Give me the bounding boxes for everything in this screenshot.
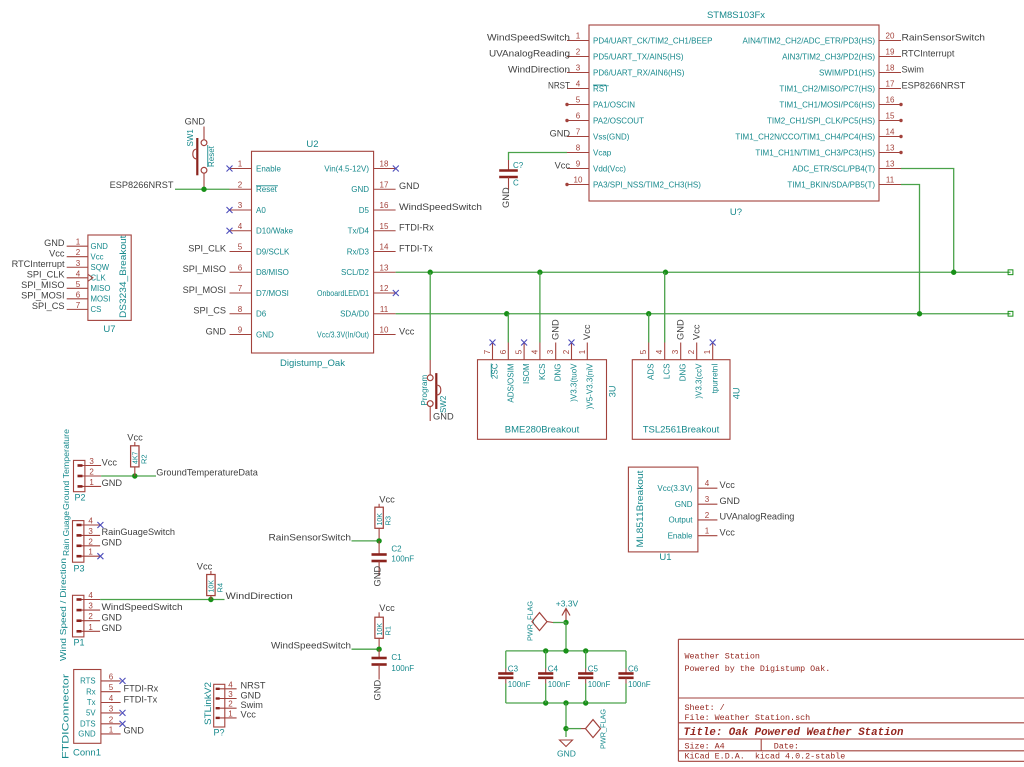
svg-text:2: 2 xyxy=(687,349,696,354)
svg-text:Vcc: Vcc xyxy=(379,603,395,613)
svg-text:Vcc: Vcc xyxy=(241,710,257,720)
svg-text:Sheet: /: Sheet: / xyxy=(685,703,725,713)
svg-text:13: 13 xyxy=(380,263,389,272)
svg-text:FTDI-Tx: FTDI-Tx xyxy=(399,243,433,253)
svg-text:4: 4 xyxy=(238,222,243,231)
svg-text:NRST: NRST xyxy=(241,681,266,691)
svg-text:SPI_MISO: SPI_MISO xyxy=(21,280,64,290)
svg-text:Enable: Enable xyxy=(668,532,693,541)
svg-text:8: 8 xyxy=(238,305,243,314)
svg-text:ADC_ETR/SCL/PB4(T): ADC_ETR/SCL/PB4(T) xyxy=(792,164,875,173)
svg-text:Rx/D3: Rx/D3 xyxy=(347,247,370,256)
svg-text:SW2: SW2 xyxy=(439,395,448,413)
svg-text:Tx/D4: Tx/D4 xyxy=(348,227,370,236)
svg-text:GND: GND xyxy=(373,566,383,587)
svg-text:6: 6 xyxy=(109,672,114,681)
svg-text:TIM2_CH1/SPI_CLK/PC5(HS): TIM2_CH1/SPI_CLK/PC5(HS) xyxy=(767,116,875,125)
svg-text:Swim: Swim xyxy=(902,64,925,74)
svg-text:UVAnalogReading: UVAnalogReading xyxy=(720,512,795,522)
svg-text:D6: D6 xyxy=(256,310,267,319)
svg-text:5: 5 xyxy=(576,96,581,105)
svg-text:Vcc: Vcc xyxy=(127,433,143,443)
svg-text:GND: GND xyxy=(102,613,123,623)
svg-text:6: 6 xyxy=(576,112,581,121)
svg-text:4U: 4U xyxy=(732,388,742,400)
svg-text:UVAnalogReading: UVAnalogReading xyxy=(489,48,570,58)
svg-text:BME280Breakout: BME280Breakout xyxy=(505,425,580,436)
svg-text:5: 5 xyxy=(515,349,524,354)
svg-text:17: 17 xyxy=(886,80,895,89)
svg-text:Ground Temperature: Ground Temperature xyxy=(61,429,71,510)
svg-text:7: 7 xyxy=(483,349,492,354)
svg-text:STM8S103Fx: STM8S103Fx xyxy=(707,10,765,21)
svg-text:9: 9 xyxy=(576,160,581,169)
svg-text:11: 11 xyxy=(886,176,895,185)
svg-text:PD4/UART_CK/TIM2_CH1/BEEP: PD4/UART_CK/TIM2_CH1/BEEP xyxy=(593,36,712,45)
svg-text:2: 2 xyxy=(109,715,114,724)
svg-text:Vcc: Vcc xyxy=(197,562,213,572)
svg-text:PA1/OSCIN: PA1/OSCIN xyxy=(593,100,635,109)
svg-text:12: 12 xyxy=(380,284,389,293)
svg-text:5: 5 xyxy=(238,243,243,252)
svg-text:LCS: LCS xyxy=(663,364,672,380)
svg-text:7: 7 xyxy=(576,128,581,137)
svg-text:RTS: RTS xyxy=(80,677,95,686)
svg-text:GND: GND xyxy=(44,238,65,248)
svg-text:7: 7 xyxy=(76,301,81,310)
svg-text:GND: GND xyxy=(241,690,262,700)
svg-text:4K7: 4K7 xyxy=(133,451,140,464)
svg-text:OnboardLED/D1: OnboardLED/D1 xyxy=(317,289,369,298)
svg-text:U2: U2 xyxy=(306,139,318,150)
svg-text:GND: GND xyxy=(557,749,576,759)
svg-text:SW1: SW1 xyxy=(186,129,195,147)
svg-text:DTS: DTS xyxy=(80,719,96,728)
svg-text:PWR_FLAG: PWR_FLAG xyxy=(599,709,608,749)
svg-text:3: 3 xyxy=(238,201,243,210)
svg-text:TIM1_CH1N/TIM1_CH3/PC3(HS): TIM1_CH1N/TIM1_CH3/PC3(HS) xyxy=(755,148,875,157)
svg-text:10: 10 xyxy=(380,326,389,335)
svg-text:100nF: 100nF xyxy=(548,680,571,689)
svg-text:4: 4 xyxy=(76,269,81,278)
svg-text:1: 1 xyxy=(705,527,710,536)
svg-text:FTDI-Rx: FTDI-Rx xyxy=(399,223,434,233)
svg-text:1: 1 xyxy=(238,160,243,169)
svg-text:P1: P1 xyxy=(74,638,85,648)
svg-text:SDA/D0: SDA/D0 xyxy=(340,310,369,319)
svg-text:100nF: 100nF xyxy=(391,664,414,673)
svg-text:P3: P3 xyxy=(74,564,85,574)
svg-text:Vcc: Vcc xyxy=(692,324,702,340)
svg-text:WindDirection: WindDirection xyxy=(508,64,570,74)
svg-text:Weather Station: Weather Station xyxy=(685,651,760,661)
svg-text:GND: GND xyxy=(102,538,123,548)
svg-text:TSL2561Breakout: TSL2561Breakout xyxy=(643,425,720,436)
svg-text:2: 2 xyxy=(88,537,93,546)
svg-text:RainGuageSwitch: RainGuageSwitch xyxy=(102,527,176,537)
svg-text:1: 1 xyxy=(703,349,712,354)
svg-text:Vcc: Vcc xyxy=(720,528,736,538)
svg-text:GND: GND xyxy=(676,319,686,340)
svg-text:10: 10 xyxy=(574,176,583,185)
svg-text:AIN3/TIM2_CH3/PD2(HS): AIN3/TIM2_CH3/PD2(HS) xyxy=(782,52,875,61)
svg-text:Vcc/3.3V(In/Out): Vcc/3.3V(In/Out) xyxy=(317,330,369,339)
svg-text:Vin(4.5-12V): Vin(4.5-12V) xyxy=(324,164,369,173)
svg-text:Vcc: Vcc xyxy=(49,249,65,259)
svg-text:GND: GND xyxy=(720,496,741,506)
svg-text:Powered by the Digistump Oak.: Powered by the Digistump Oak. xyxy=(685,664,831,674)
svg-text:3: 3 xyxy=(89,457,94,466)
svg-text:1: 1 xyxy=(88,548,93,557)
svg-text:11: 11 xyxy=(380,305,389,314)
svg-text:Reset: Reset xyxy=(256,185,278,194)
svg-text:File: Weather Station.sch: File: Weather Station.sch xyxy=(685,713,811,723)
svg-text:FTDI-Rx: FTDI-Rx xyxy=(124,684,159,694)
svg-text:2: 2 xyxy=(89,468,94,477)
svg-text:3: 3 xyxy=(546,349,555,354)
svg-text:4: 4 xyxy=(705,479,710,488)
svg-text:D10/Wake: D10/Wake xyxy=(256,227,294,236)
svg-text:5V: 5V xyxy=(86,709,96,718)
svg-text:GND: GND xyxy=(78,730,96,739)
svg-text:5: 5 xyxy=(76,280,81,289)
svg-text:Vcc: Vcc xyxy=(555,160,571,170)
svg-text:C: C xyxy=(513,179,519,188)
svg-text:RTCInterrupt: RTCInterrupt xyxy=(12,259,65,269)
svg-text:4: 4 xyxy=(88,591,93,600)
svg-text:CS: CS xyxy=(91,305,102,314)
svg-text:1: 1 xyxy=(228,709,233,718)
svg-text:SPI_CLK: SPI_CLK xyxy=(188,243,227,253)
svg-text:8: 8 xyxy=(576,144,581,153)
svg-text:ADS: ADS xyxy=(647,364,656,380)
svg-text:GND: GND xyxy=(501,187,511,208)
svg-text:)V3.3(tuoV: )V3.3(tuoV xyxy=(570,363,579,402)
svg-text:Vcc: Vcc xyxy=(582,324,592,340)
svg-text:+3.3V: +3.3V xyxy=(556,599,579,609)
svg-text:1: 1 xyxy=(576,32,581,41)
svg-text:GND: GND xyxy=(256,330,274,339)
svg-text:Wind Speed / Direction: Wind Speed / Direction xyxy=(58,558,68,661)
svg-text:C1: C1 xyxy=(391,653,402,662)
svg-text:GND: GND xyxy=(102,478,123,488)
svg-text:2: 2 xyxy=(238,180,243,189)
svg-text:18: 18 xyxy=(886,64,895,73)
svg-text:U7: U7 xyxy=(103,324,115,335)
svg-text:R4: R4 xyxy=(216,583,225,593)
svg-text:D8/MISO: D8/MISO xyxy=(256,268,289,277)
svg-text:3: 3 xyxy=(76,259,81,268)
svg-text:DNG: DNG xyxy=(554,364,563,382)
svg-text:GND: GND xyxy=(185,117,206,127)
svg-text:15: 15 xyxy=(886,112,895,121)
svg-text:19: 19 xyxy=(886,48,895,57)
svg-text:Date:: Date: xyxy=(774,741,799,751)
svg-text:C3: C3 xyxy=(508,665,519,674)
svg-text:D9/SCLK: D9/SCLK xyxy=(256,247,290,256)
svg-text:6: 6 xyxy=(76,290,81,299)
svg-text:6: 6 xyxy=(238,263,243,272)
svg-text:GND: GND xyxy=(124,726,145,736)
svg-text:P?: P? xyxy=(213,728,224,738)
svg-text:100nF: 100nF xyxy=(628,680,651,689)
svg-text:SPI_CS: SPI_CS xyxy=(193,306,226,316)
svg-text:tpurretnI: tpurretnI xyxy=(711,364,720,394)
svg-text:13: 13 xyxy=(886,144,895,153)
svg-text:ESP8266NRST: ESP8266NRST xyxy=(902,80,966,90)
svg-text:PD6/UART_RX/AIN6(HS): PD6/UART_RX/AIN6(HS) xyxy=(593,68,685,77)
svg-text:1: 1 xyxy=(88,623,93,632)
svg-text:A0: A0 xyxy=(256,206,266,215)
svg-text:RainSensorSwitch: RainSensorSwitch xyxy=(269,532,352,542)
svg-text:GND: GND xyxy=(206,326,227,336)
svg-text:3: 3 xyxy=(705,495,710,504)
svg-text:P2: P2 xyxy=(75,493,86,503)
svg-text:Vcc: Vcc xyxy=(720,480,736,490)
svg-text:1: 1 xyxy=(76,238,81,247)
svg-text:DS3234_Breakout: DS3234_Breakout xyxy=(118,235,128,318)
svg-text:C4: C4 xyxy=(548,665,559,674)
svg-text:Rx: Rx xyxy=(86,687,96,696)
svg-text:1: 1 xyxy=(109,725,114,734)
svg-text:GND: GND xyxy=(351,185,369,194)
svg-text:15: 15 xyxy=(380,222,389,231)
svg-text:GND: GND xyxy=(433,412,454,422)
svg-text:14: 14 xyxy=(380,243,389,252)
svg-text:SWIM/PD1(HS): SWIM/PD1(HS) xyxy=(819,68,875,77)
svg-text:4: 4 xyxy=(576,80,581,89)
svg-text:R3: R3 xyxy=(384,516,393,526)
svg-text:STLinkV2: STLinkV2 xyxy=(203,682,213,725)
svg-text:GND: GND xyxy=(102,623,123,633)
svg-text:3: 3 xyxy=(88,527,93,536)
svg-text:PA3/SPI_NSS/TIM2_CH3(HS): PA3/SPI_NSS/TIM2_CH3(HS) xyxy=(593,180,701,189)
svg-text:WindDirection: WindDirection xyxy=(226,591,293,601)
svg-text:C2: C2 xyxy=(391,545,402,554)
svg-text:100nF: 100nF xyxy=(508,680,531,689)
svg-text:4: 4 xyxy=(530,349,539,354)
svg-text:Program: Program xyxy=(420,374,429,405)
svg-text:NRST: NRST xyxy=(548,80,570,90)
svg-text:Vcap: Vcap xyxy=(593,148,612,157)
svg-text:SPI_MISO: SPI_MISO xyxy=(183,264,226,274)
svg-text:SQW: SQW xyxy=(91,263,110,272)
svg-text:TIM1_CH2N/CCO/TIM1_CH4/PC4(HS): TIM1_CH2N/CCO/TIM1_CH4/PC4(HS) xyxy=(735,132,875,141)
svg-text:WindSpeedSwitch: WindSpeedSwitch xyxy=(102,602,183,612)
svg-text:C?: C? xyxy=(513,161,524,170)
svg-text:100nF: 100nF xyxy=(588,680,611,689)
svg-text:C5: C5 xyxy=(588,665,599,674)
svg-text:WindSpeedSwitch: WindSpeedSwitch xyxy=(487,32,570,42)
svg-text:RainSensorSwitch: RainSensorSwitch xyxy=(902,32,986,42)
svg-text:Vcc: Vcc xyxy=(379,494,395,504)
svg-text:Output: Output xyxy=(668,516,693,525)
svg-text:16: 16 xyxy=(886,96,895,105)
svg-text:Size: A4: Size: A4 xyxy=(685,741,725,751)
svg-text:D5: D5 xyxy=(359,206,370,215)
svg-text:16: 16 xyxy=(380,201,389,210)
svg-text:TIM1_CH2/MISO/PC7(HS): TIM1_CH2/MISO/PC7(HS) xyxy=(779,84,875,93)
svg-text:3: 3 xyxy=(109,704,114,713)
svg-text:2: 2 xyxy=(228,700,233,709)
svg-text:U1: U1 xyxy=(659,552,671,563)
svg-text:RTCInterrupt: RTCInterrupt xyxy=(902,48,955,58)
svg-text:GND: GND xyxy=(675,500,693,509)
svg-text:R1: R1 xyxy=(384,626,393,636)
svg-text:MISO: MISO xyxy=(91,284,111,293)
svg-text:GND: GND xyxy=(373,680,383,701)
svg-text:U?: U? xyxy=(730,207,742,218)
svg-text:Tx: Tx xyxy=(87,698,96,707)
svg-text:Swim: Swim xyxy=(241,700,264,710)
svg-text:PD5/UART_TX/AIN5(HS): PD5/UART_TX/AIN5(HS) xyxy=(593,52,684,61)
svg-text:4: 4 xyxy=(655,349,664,354)
svg-text:2: 2 xyxy=(88,612,93,621)
svg-text:2SC: 2SC xyxy=(491,363,500,379)
svg-text:R2: R2 xyxy=(140,454,149,464)
svg-text:3: 3 xyxy=(88,602,93,611)
svg-text:C6: C6 xyxy=(628,665,639,674)
svg-text:Conn1: Conn1 xyxy=(73,748,101,759)
svg-text:Vdd(Vcc): Vdd(Vcc) xyxy=(593,164,626,173)
svg-text:2: 2 xyxy=(705,511,710,520)
svg-text:1: 1 xyxy=(89,478,94,487)
svg-text:3: 3 xyxy=(228,690,233,699)
svg-text:DNG: DNG xyxy=(679,364,688,382)
svg-text:WindSpeedSwitch: WindSpeedSwitch xyxy=(271,641,351,651)
svg-text:Vss(GND): Vss(GND) xyxy=(593,132,630,141)
svg-text:2: 2 xyxy=(562,349,571,354)
svg-text:SPI_MOSI: SPI_MOSI xyxy=(183,285,226,295)
svg-text:SPI_CS: SPI_CS xyxy=(32,301,65,311)
svg-text:WindSpeedSwitch: WindSpeedSwitch xyxy=(399,202,482,212)
svg-text:AIN4/TIM2_CH2/ADC_ETR/PD3(HS): AIN4/TIM2_CH2/ADC_ETR/PD3(HS) xyxy=(743,36,876,45)
svg-text:18: 18 xyxy=(380,160,389,169)
svg-text:KiCad E.D.A. kicad 4.0.2-stab: KiCad E.D.A. kicad 4.0.2-stable xyxy=(685,752,846,762)
svg-text:D7/MOSI: D7/MOSI xyxy=(256,289,289,298)
svg-text:2: 2 xyxy=(576,48,581,57)
svg-text:)V5-V3.3(niV: )V5-V3.3(niV xyxy=(585,363,594,409)
svg-text:6: 6 xyxy=(499,349,508,354)
svg-text:SPI_MOSI: SPI_MOSI xyxy=(21,291,64,301)
svg-text:Rain Guage: Rain Guage xyxy=(61,511,71,556)
svg-text:20: 20 xyxy=(886,32,895,41)
svg-text:Enable: Enable xyxy=(256,164,281,173)
svg-text:9: 9 xyxy=(238,326,243,335)
svg-text:Vcc: Vcc xyxy=(91,252,104,261)
svg-text:Vcc: Vcc xyxy=(102,457,118,467)
svg-text:3U: 3U xyxy=(608,386,618,398)
svg-text:FTDIConnector: FTDIConnector xyxy=(61,674,71,759)
svg-text:)V3.3(ccV: )V3.3(ccV xyxy=(695,363,704,399)
svg-text:17: 17 xyxy=(380,180,389,189)
svg-text:4: 4 xyxy=(88,517,93,526)
svg-text:7: 7 xyxy=(238,284,243,293)
svg-text:RST: RST xyxy=(593,84,609,93)
svg-text:PWR_FLAG: PWR_FLAG xyxy=(526,601,535,641)
svg-text:ESP8266NRST: ESP8266NRST xyxy=(110,180,174,190)
svg-text:100nF: 100nF xyxy=(391,555,414,564)
svg-text:4: 4 xyxy=(109,694,114,703)
svg-text:MOSI: MOSI xyxy=(91,294,111,303)
svg-text:5: 5 xyxy=(639,349,648,354)
svg-text:Title: Oak Powered Weather Sta: Title: Oak Powered Weather Station xyxy=(684,727,905,739)
svg-text:SPI_CLK: SPI_CLK xyxy=(27,270,66,280)
svg-text:GND: GND xyxy=(91,242,109,251)
svg-text:GND: GND xyxy=(551,319,561,340)
svg-text:Vcc: Vcc xyxy=(399,326,415,336)
svg-text:3: 3 xyxy=(576,64,581,73)
svg-text:4: 4 xyxy=(228,680,233,689)
svg-text:Vcc(3.3V): Vcc(3.3V) xyxy=(657,484,692,493)
svg-text:2: 2 xyxy=(76,248,81,257)
svg-text:3: 3 xyxy=(671,349,680,354)
svg-text:Digistump_Oak: Digistump_Oak xyxy=(280,358,345,369)
svg-text:Reset: Reset xyxy=(207,145,216,167)
svg-text:13: 13 xyxy=(886,160,895,169)
svg-text:ISOM: ISOM xyxy=(522,363,531,384)
svg-text:GND: GND xyxy=(550,128,571,138)
svg-text:5: 5 xyxy=(109,683,114,692)
svg-text:SCL/D2: SCL/D2 xyxy=(341,268,370,277)
svg-text:ADS/OSIM: ADS/OSIM xyxy=(506,363,515,402)
svg-text:GroundTemperatureData: GroundTemperatureData xyxy=(156,468,259,478)
svg-text:GND: GND xyxy=(399,181,420,191)
svg-text:FTDI-Tx: FTDI-Tx xyxy=(124,694,158,704)
svg-text:1: 1 xyxy=(578,349,587,354)
svg-text:TIM1_BKIN/SDA/PB5(T): TIM1_BKIN/SDA/PB5(T) xyxy=(787,180,875,189)
svg-text:ML8511Breakout: ML8511Breakout xyxy=(635,470,645,548)
svg-text:14: 14 xyxy=(886,128,895,137)
svg-text:KCS: KCS xyxy=(538,364,547,380)
svg-text:TIM1_CH1/MOSI/PC6(HS): TIM1_CH1/MOSI/PC6(HS) xyxy=(779,100,875,109)
svg-text:PA2/OSCOUT: PA2/OSCOUT xyxy=(593,116,644,125)
